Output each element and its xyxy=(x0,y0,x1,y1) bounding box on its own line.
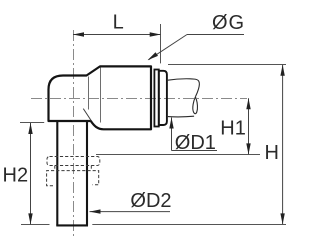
hex edge line left xyxy=(88,77,90,110)
elbow body outline xyxy=(49,66,152,129)
extension line collet end (for L) xyxy=(160,24,162,63)
tube bottom edge xyxy=(168,115,194,118)
release button cap xyxy=(159,71,167,125)
dimension L line xyxy=(73,32,161,36)
hex chamfer diagonal xyxy=(83,109,91,121)
extension line flange top plane (for H1) xyxy=(96,154,260,156)
label H1 xyxy=(220,117,246,139)
hex edge line right xyxy=(100,68,102,123)
stem bottom edge xyxy=(56,224,88,226)
dimension H line xyxy=(280,65,284,225)
tube top edge xyxy=(168,79,200,97)
stem right edge xyxy=(86,122,88,226)
label ØD1 xyxy=(175,132,216,154)
extension line bottom left (for H2) xyxy=(21,224,50,226)
extension line bottom right (for H) xyxy=(92,224,286,226)
label ØD2 xyxy=(130,190,171,212)
svg-text:ØG: ØG xyxy=(212,12,245,34)
vertical centerline (stem axis) xyxy=(73,30,75,237)
stem left edge xyxy=(56,122,58,226)
extension line elbow bottom plane (for H2) xyxy=(20,122,44,124)
hidden collar body (dashed) xyxy=(47,171,99,186)
label H2 xyxy=(3,165,29,187)
dimension H1 line xyxy=(246,98,250,154)
hidden collar flange (dashed) xyxy=(47,157,100,166)
label ØG xyxy=(212,12,245,34)
svg-text:H2: H2 xyxy=(3,165,29,187)
svg-text:H1: H1 xyxy=(220,117,246,139)
release ring xyxy=(154,70,158,127)
svg-text:L: L xyxy=(113,11,124,33)
horizontal centerline (tube axis) xyxy=(31,98,247,100)
svg-text:ØD1: ØD1 xyxy=(175,132,216,154)
dimension H2 line xyxy=(28,123,32,224)
dimension ØD2 leader xyxy=(90,209,171,213)
svg-text:H: H xyxy=(265,142,279,164)
dimension ØD1 leader xyxy=(169,118,217,151)
svg-text:ØD2: ØD2 xyxy=(130,190,171,212)
tube end break loop xyxy=(193,97,198,114)
label L xyxy=(113,11,124,33)
extension line top (body top plane, for H) xyxy=(168,64,286,66)
label H xyxy=(265,142,279,164)
hidden collar tab right (dashed) xyxy=(90,166,92,171)
hidden collar tab left (dashed) xyxy=(54,166,56,171)
dimension ØG leader xyxy=(148,35,244,61)
